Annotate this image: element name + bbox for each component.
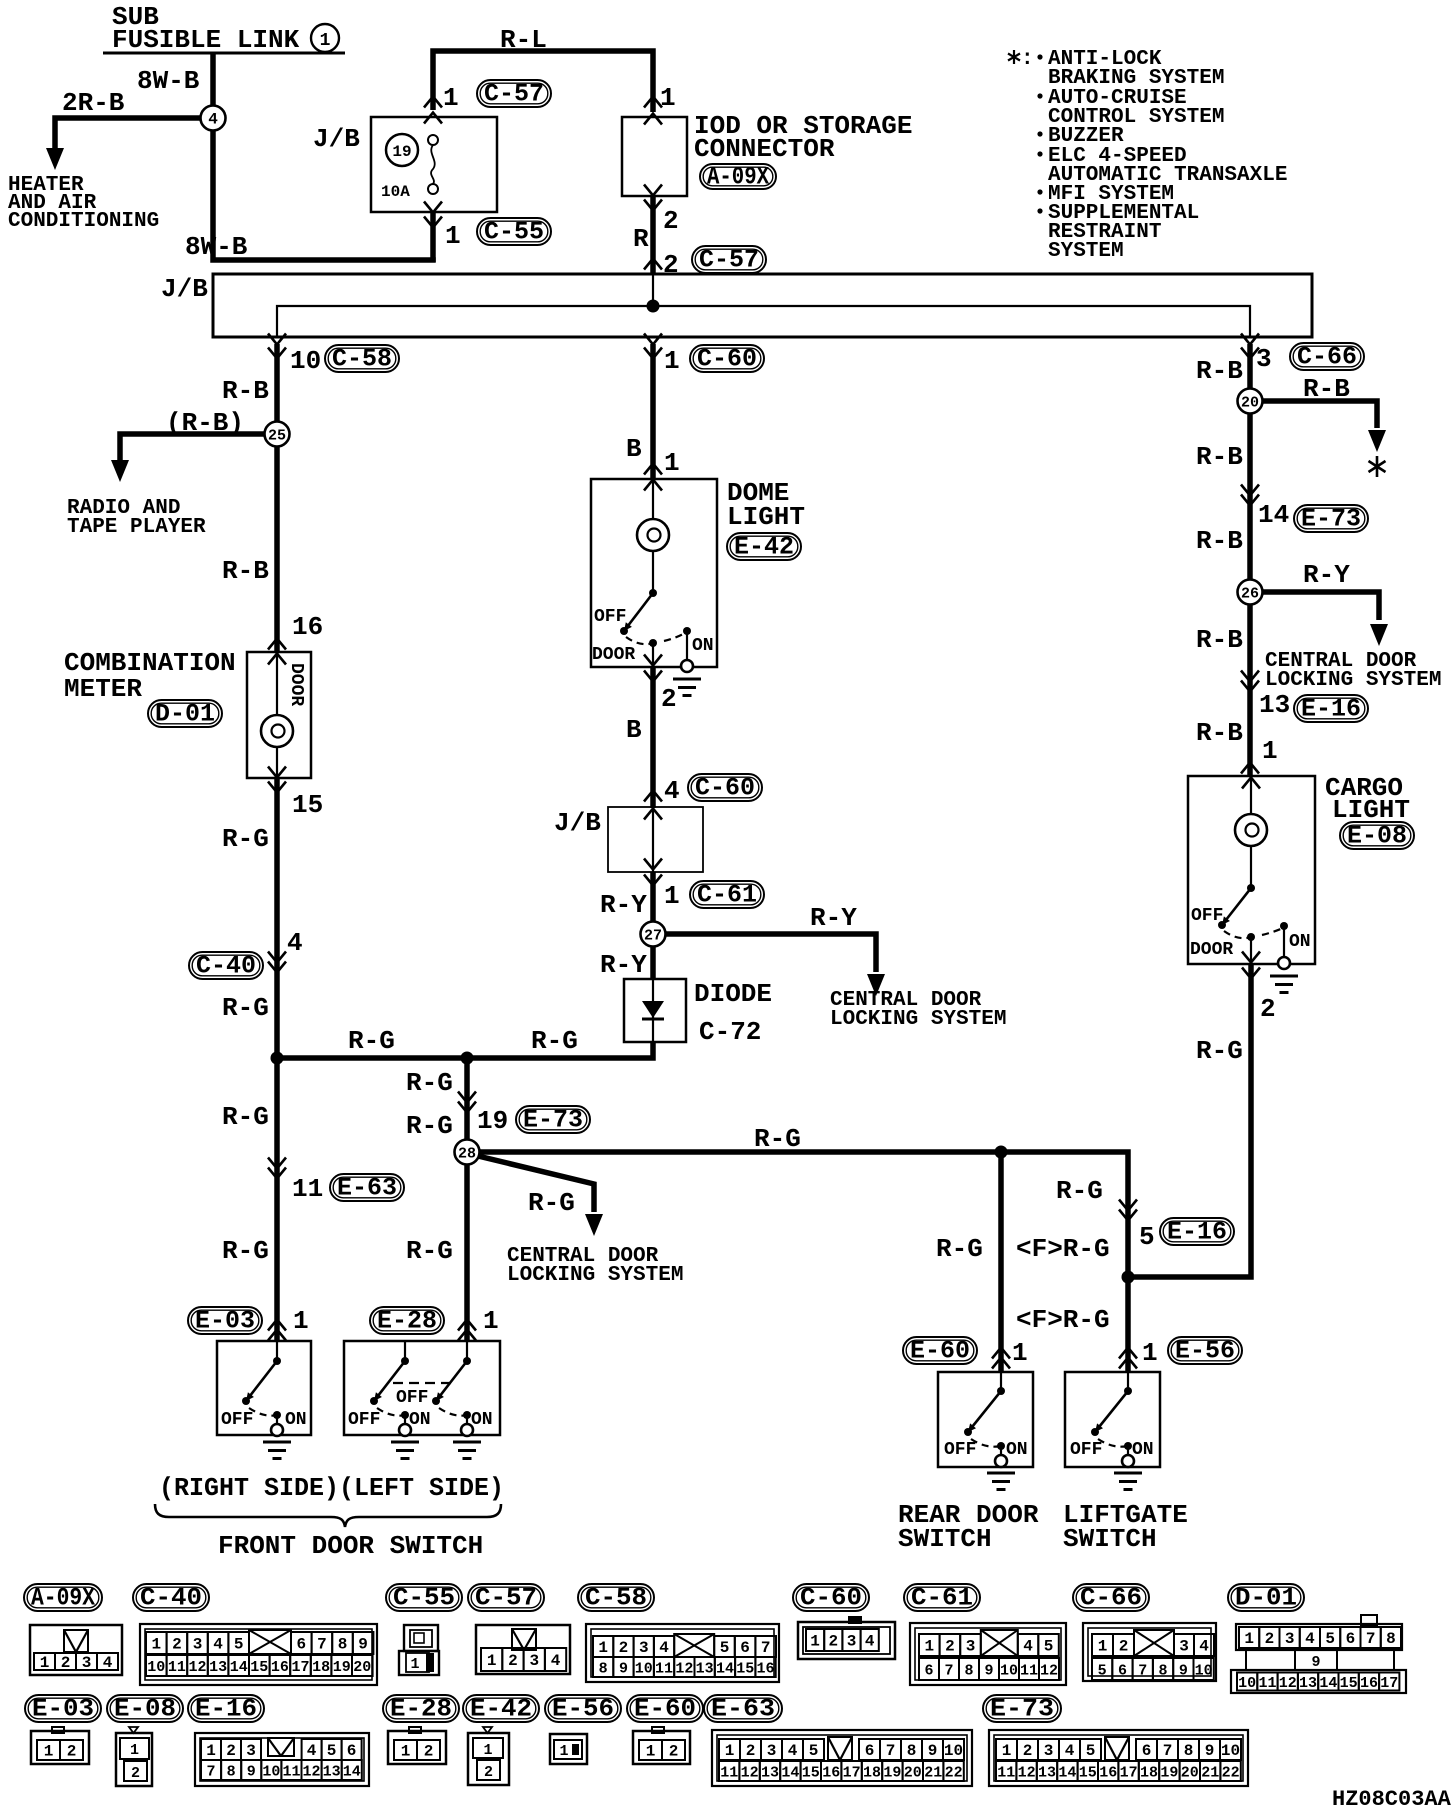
svg-text:LOCKING SYSTEM: LOCKING SYSTEM: [507, 1264, 683, 1287]
wire R-B right column: [1196, 344, 1250, 777]
svg-text:8W-B: 8W-B: [185, 232, 248, 262]
wire label R-B: [222, 376, 269, 406]
svg-text:18: 18: [1140, 1765, 1158, 1782]
svg-text:27: 27: [644, 928, 662, 945]
connector label E-08 (chart): [107, 1695, 183, 1724]
svg-text:19: 19: [392, 143, 411, 161]
connector C-40 pin 4: [268, 928, 303, 973]
svg-text:METER: METER: [64, 674, 142, 704]
svg-text:3: 3: [639, 1639, 649, 1657]
cargo light switch dashed arc and DOOR/ON contacts: [1190, 922, 1311, 960]
destination: central door locking system (center): [830, 989, 1006, 1031]
connector label C-66 (chart): [1073, 1584, 1149, 1613]
front door switch LH box E-28: [344, 1341, 500, 1435]
connector label E-63: [330, 1174, 404, 1203]
wire R-Y branch to central door locking (right): [1250, 592, 1388, 646]
svg-text:14: 14: [1319, 1675, 1337, 1692]
svg-text:OFF: OFF: [1070, 1440, 1102, 1460]
svg-text:C-60: C-60: [800, 1584, 862, 1613]
svg-text:14: 14: [1258, 500, 1289, 530]
svg-text:20: 20: [353, 1659, 371, 1676]
connector label A-09X: [700, 163, 776, 192]
svg-text:2R-B: 2R-B: [62, 88, 125, 118]
connector label E-73 (right): [1294, 505, 1368, 534]
svg-text:B: B: [626, 715, 642, 745]
destination: central door locking system (lower): [507, 1245, 683, 1287]
svg-text:12: 12: [188, 1659, 206, 1676]
svg-text:1: 1: [598, 1639, 608, 1657]
connector C-61 pin 1: [644, 872, 680, 934]
svg-text:13: 13: [696, 1661, 714, 1678]
wire label R-B above combination meter: [222, 556, 269, 586]
IOD or storage connector box: [622, 117, 687, 196]
svg-text:5: 5: [1086, 1742, 1096, 1760]
connector label E-56: [1168, 1337, 1242, 1366]
svg-text:6: 6: [1346, 1630, 1356, 1648]
svg-text:12: 12: [1018, 1765, 1036, 1782]
svg-text:10: 10: [944, 1742, 963, 1760]
svg-text:3: 3: [193, 1636, 203, 1654]
svg-text:19: 19: [477, 1106, 508, 1136]
svg-text:3: 3: [529, 1652, 539, 1670]
svg-text:E-08: E-08: [114, 1695, 176, 1724]
svg-text:C-60: C-60: [697, 345, 757, 374]
svg-text:25: 25: [268, 428, 286, 445]
node 27: [641, 922, 666, 947]
wire label R-G (branch): [528, 1188, 575, 1218]
svg-text:HZ08C03AA: HZ08C03AA: [1332, 1787, 1452, 1812]
dome light bulb: [637, 479, 669, 593]
wire R-B branch to asterisk systems: [1250, 401, 1386, 452]
connector label C-61: [690, 881, 764, 910]
svg-text:21: 21: [924, 1765, 942, 1782]
svg-text:C-58: C-58: [332, 345, 392, 374]
front door switch LH switch A ground: [391, 1415, 419, 1459]
svg-text:DIODE: DIODE: [694, 979, 772, 1009]
front door switch LH pin 1: [458, 1306, 499, 1341]
svg-text:9: 9: [928, 1742, 938, 1760]
wire label 8W-B: [137, 66, 200, 96]
wire R-G main horizontal: [277, 1042, 653, 1058]
connector pinout E-42: [468, 1727, 509, 1785]
connector pinout E-08: [116, 1727, 152, 1786]
connector pinout E-16: [195, 1733, 369, 1786]
junction dot node28 column: [461, 1052, 474, 1065]
svg-text:12: 12: [303, 1764, 321, 1781]
svg-text:4: 4: [287, 928, 303, 958]
svg-text:10: 10: [290, 346, 321, 376]
diode label C-72: [694, 979, 772, 1047]
svg-text:1: 1: [1098, 1638, 1108, 1656]
junction block J/B (small): [554, 807, 703, 872]
svg-text:1: 1: [1142, 1338, 1158, 1368]
connector pinout E-73: [989, 1730, 1248, 1786]
cargo light pin 2 exit: [1242, 937, 1276, 1024]
svg-text:18: 18: [312, 1659, 330, 1676]
svg-text:E-56: E-56: [552, 1695, 614, 1724]
svg-text:OFF: OFF: [594, 607, 626, 627]
connector pinout E-03: [31, 1727, 89, 1764]
svg-text:6: 6: [924, 1663, 933, 1680]
svg-text:8: 8: [338, 1636, 348, 1654]
svg-text:C-72: C-72: [699, 1017, 761, 1047]
rear door switch box E-60: [938, 1372, 1033, 1467]
svg-text:8: 8: [964, 1663, 973, 1680]
svg-text:J/B: J/B: [313, 124, 360, 154]
svg-text:8W-B: 8W-B: [137, 66, 200, 96]
svg-text:E-60: E-60: [634, 1695, 696, 1724]
svg-text:R-B: R-B: [1196, 442, 1243, 472]
wire label R-Y above node 27: [600, 890, 647, 920]
wire from cargo light to liftgate junction: [1128, 964, 1251, 1277]
combination meter label: [64, 648, 236, 704]
connector pinout C-60: [798, 1616, 895, 1659]
connector E-16 pin 13: [1241, 671, 1290, 721]
svg-text:C-61: C-61: [697, 881, 757, 910]
svg-text:2: 2: [1119, 1638, 1129, 1656]
svg-text:R-G: R-G: [754, 1124, 801, 1154]
svg-text:2: 2: [226, 1742, 236, 1760]
svg-text:ON: ON: [471, 1410, 493, 1430]
svg-text:1: 1: [810, 1633, 820, 1651]
svg-text:9: 9: [358, 1636, 368, 1654]
svg-text:E-63: E-63: [337, 1174, 397, 1203]
svg-text:3: 3: [1179, 1638, 1189, 1656]
svg-text:9: 9: [619, 1661, 628, 1678]
svg-text:8: 8: [907, 1742, 917, 1760]
svg-text:15: 15: [802, 1765, 820, 1782]
svg-text:E-28: E-28: [390, 1695, 452, 1724]
svg-text:10: 10: [1221, 1742, 1240, 1760]
svg-text:E-73: E-73: [990, 1695, 1054, 1724]
connector E-73 pin 19: [406, 1092, 508, 1142]
liftgate switch ground: [1114, 1446, 1142, 1490]
svg-text:R: R: [633, 224, 649, 254]
svg-text:1: 1: [151, 1636, 161, 1654]
connector label E-03: [188, 1307, 262, 1336]
liftgate switch contacts: [1070, 1372, 1154, 1460]
svg-text:6: 6: [1142, 1742, 1152, 1760]
svg-text:ON: ON: [1289, 932, 1311, 952]
connector label C-57: [477, 80, 551, 109]
svg-text:C-40: C-40: [140, 1584, 202, 1613]
svg-text:E-16: E-16: [195, 1695, 257, 1724]
connector label E-03 (chart): [25, 1695, 101, 1724]
front door switch RH pin 1: [268, 1306, 309, 1341]
cargo light ON contact ground: [1270, 926, 1298, 993]
dome light switch: [620, 589, 657, 635]
svg-text:R-G: R-G: [406, 1068, 453, 1098]
svg-text:DOOR: DOOR: [592, 645, 635, 665]
connector label C-57 (pin 2): [692, 246, 766, 275]
svg-text:E-08: E-08: [1347, 822, 1407, 851]
wire label <F>R-G upper: [1016, 1234, 1110, 1264]
svg-text:SYSTEM: SYSTEM: [1048, 240, 1124, 263]
connector label E-16 (right): [1294, 695, 1368, 724]
dome light ON contact ground: [673, 631, 701, 696]
connector label E-56 (chart): [545, 1695, 621, 1724]
svg-text:18: 18: [863, 1765, 881, 1782]
svg-text:11: 11: [1020, 1663, 1038, 1680]
liftgate switch title: [1063, 1500, 1188, 1554]
connector pinout E-28: [388, 1727, 446, 1764]
connector label C-60 (chart): [793, 1584, 869, 1613]
svg-text:2: 2: [1023, 1742, 1033, 1760]
connector pinout D-01: [1231, 1615, 1406, 1693]
wire B below dome light: [626, 667, 653, 808]
svg-text:20: 20: [1241, 395, 1259, 412]
svg-text:4: 4: [1065, 1742, 1075, 1760]
svg-text:R-G: R-G: [936, 1234, 983, 1264]
connector label E-28: [370, 1307, 444, 1336]
dome light pin 2 exit: [644, 643, 677, 714]
front door switch LH switch A: [348, 1341, 431, 1430]
wire label R-G below cargo light: [1196, 1036, 1243, 1066]
connector label E-16: [1160, 1218, 1234, 1247]
svg-text:SWITCH: SWITCH: [1063, 1524, 1157, 1554]
svg-text:C-57: C-57: [699, 246, 759, 275]
wire label R-Y (branch): [810, 903, 857, 933]
svg-text:2: 2: [746, 1742, 756, 1760]
connector C-60 pin 1: [644, 334, 680, 377]
svg-text:19: 19: [1160, 1765, 1178, 1782]
svg-text:16: 16: [271, 1659, 289, 1676]
connector pinout A-09X: [30, 1625, 122, 1675]
svg-text:2: 2: [1260, 994, 1276, 1024]
svg-text:TAPE PLAYER: TAPE PLAYER: [67, 516, 206, 539]
connector label E-63 (chart): [704, 1695, 782, 1724]
svg-text:1: 1: [559, 1743, 568, 1760]
connector label E-73 (chart): [983, 1695, 1061, 1724]
connector label C-40: [189, 952, 263, 981]
svg-text:2: 2: [945, 1638, 955, 1656]
svg-text:1: 1: [483, 1742, 492, 1759]
svg-text:6: 6: [865, 1742, 875, 1760]
connector label E-42: [727, 533, 801, 562]
svg-text:4: 4: [664, 776, 680, 806]
svg-text:<F>R-G: <F>R-G: [1016, 1234, 1110, 1264]
svg-text:1: 1: [1012, 1338, 1028, 1368]
svg-text:9: 9: [1179, 1663, 1188, 1680]
svg-text:11: 11: [720, 1765, 738, 1782]
svg-text:CONNECTOR: CONNECTOR: [694, 134, 835, 164]
combination meter box D-01: [247, 652, 311, 778]
svg-text:17: 17: [291, 1659, 309, 1676]
svg-text:CONDITIONING: CONDITIONING: [8, 210, 159, 233]
svg-text:15: 15: [1340, 1675, 1358, 1692]
svg-text:LIGHT: LIGHT: [727, 502, 805, 532]
wire label R-B above cargo light: [1196, 718, 1243, 748]
svg-text:R-B: R-B: [1196, 526, 1243, 556]
svg-text:OFF: OFF: [944, 1440, 976, 1460]
wire R-Y branch to central door locking: [655, 934, 885, 996]
wire from C-55 down to 8W-B: [430, 212, 436, 262]
connector C-58 pin 10: [268, 334, 321, 377]
wire label R-B below node 20: [1196, 442, 1243, 472]
svg-text:8: 8: [599, 1661, 608, 1678]
svg-text:ON: ON: [1006, 1440, 1028, 1460]
svg-text:7: 7: [1163, 1742, 1173, 1760]
connector pinout C-61: [910, 1623, 1066, 1685]
junction dot rear door column: [995, 1146, 1008, 1159]
wire (R-B) branch to radio: [111, 434, 277, 482]
connector label C-40 (chart): [133, 1584, 209, 1613]
svg-text:FRONT DOOR SWITCH: FRONT DOOR SWITCH: [218, 1531, 483, 1561]
svg-text:3: 3: [847, 1633, 857, 1651]
svg-text:9: 9: [247, 1764, 256, 1781]
svg-text:4: 4: [307, 1742, 317, 1760]
connector label A-09X (chart): [24, 1584, 102, 1613]
svg-text:13: 13: [761, 1765, 779, 1782]
svg-text:C-60: C-60: [695, 774, 755, 803]
svg-text:R-Y: R-Y: [600, 890, 647, 920]
combination meter internal wire and DOOR label: [277, 652, 306, 778]
connector C-55 pin 1 (bottom of J/B): [424, 202, 461, 252]
svg-text:A-09X: A-09X: [707, 163, 769, 192]
svg-text:15: 15: [736, 1661, 754, 1678]
connector C-60 pin 4: [644, 776, 680, 806]
svg-text:14: 14: [781, 1765, 799, 1782]
destination: heater and air conditioning: [8, 174, 159, 233]
svg-text:5: 5: [1325, 1630, 1335, 1648]
svg-text:2: 2: [661, 684, 677, 714]
svg-text:2: 2: [669, 1743, 679, 1761]
IOD pin 2 exit, wire R: [633, 185, 679, 281]
wire label R-G liftgate column: [1056, 1176, 1103, 1206]
svg-text:2: 2: [172, 1636, 182, 1654]
svg-text:E-42: E-42: [734, 533, 794, 562]
svg-text:20: 20: [904, 1765, 922, 1782]
wire label <F>R-G lower: [1016, 1305, 1110, 1335]
svg-text:11: 11: [282, 1764, 300, 1781]
wire R-G left column lower: [222, 1058, 277, 1342]
wire R-L from J/B pin1 to IOD connector: [433, 51, 653, 112]
svg-text:E-16: E-16: [1301, 695, 1361, 724]
front door switch LH switch B ground: [453, 1415, 481, 1459]
svg-text:3: 3: [1285, 1630, 1295, 1648]
svg-text:ON: ON: [409, 1410, 431, 1430]
svg-text:1: 1: [725, 1742, 735, 1760]
svg-text:7: 7: [1138, 1663, 1147, 1680]
wire label R-G above E-03: [222, 1236, 269, 1266]
svg-text:19: 19: [883, 1765, 901, 1782]
svg-text:3: 3: [767, 1742, 777, 1760]
rear door switch title: [898, 1500, 1039, 1554]
svg-text:R-B: R-B: [1196, 356, 1243, 386]
svg-text:3: 3: [246, 1742, 256, 1760]
junction dot liftgate/cargo: [1122, 1271, 1135, 1284]
connector C-57 pin 1 (top of J/B): [424, 83, 459, 124]
front door switch RH ground: [263, 1415, 291, 1459]
asterisk note: systems list: [1008, 48, 1287, 263]
front door switch LH mechanical link and OFF label: [393, 1383, 452, 1408]
svg-text:R-G: R-G: [222, 1102, 269, 1132]
wire R-B left column upper: [274, 344, 280, 652]
small J/B internal wire: [644, 807, 662, 872]
svg-text:10: 10: [262, 1764, 280, 1781]
svg-text:13: 13: [1259, 690, 1290, 720]
svg-text:C-57: C-57: [484, 80, 544, 109]
wire label R-L: [500, 25, 547, 55]
wire label R-G above E-28: [406, 1236, 453, 1266]
wire 2R-B branch to heater: [46, 118, 213, 170]
connector label C-60: [690, 345, 764, 374]
connector pinout C-66: [1083, 1623, 1216, 1681]
svg-text:OFF: OFF: [221, 1410, 253, 1430]
front door switch brace: [155, 1504, 501, 1527]
connector pinout E-60: [633, 1727, 690, 1764]
svg-text:2: 2: [61, 1654, 71, 1672]
connector label E-42 (chart): [463, 1695, 539, 1724]
svg-text:R-B: R-B: [222, 556, 269, 586]
svg-text:9: 9: [1205, 1742, 1215, 1760]
wire 8W-B from fusible link down to node 4 and to C-55: [213, 53, 436, 260]
svg-text:9: 9: [1311, 1654, 1320, 1671]
svg-text:3: 3: [82, 1654, 92, 1672]
connector label E-16 (chart): [188, 1695, 264, 1724]
cargo light bulb: [1235, 776, 1267, 888]
svg-text:16: 16: [1360, 1675, 1378, 1692]
svg-text:E-03: E-03: [195, 1307, 255, 1336]
svg-text:4: 4: [208, 111, 218, 129]
svg-text:R-B: R-B: [1196, 625, 1243, 655]
svg-text:5: 5: [1044, 1638, 1054, 1656]
svg-text:11: 11: [655, 1661, 673, 1678]
wire R-G rear door column: [936, 1152, 1001, 1372]
svg-text:4: 4: [659, 1639, 669, 1657]
svg-text:11: 11: [292, 1174, 323, 1204]
svg-text:11: 11: [997, 1765, 1015, 1782]
svg-text:1: 1: [664, 448, 680, 478]
svg-text:4: 4: [1199, 1638, 1209, 1656]
svg-text:8: 8: [227, 1764, 236, 1781]
svg-text:2: 2: [131, 1765, 140, 1782]
svg-text:17: 17: [1380, 1675, 1398, 1692]
svg-text:DOOR: DOOR: [1190, 940, 1233, 960]
connector label E-73: [516, 1106, 590, 1135]
svg-text:9: 9: [984, 1663, 993, 1680]
wire R-Y to diode: [600, 934, 653, 980]
svg-text:11: 11: [1258, 1675, 1276, 1692]
rear door switch contacts: [944, 1372, 1028, 1460]
svg-text:ON: ON: [692, 636, 714, 656]
svg-text:R-Y: R-Y: [810, 903, 857, 933]
junction dot left: [271, 1052, 284, 1065]
svg-text:7: 7: [761, 1639, 771, 1657]
svg-text:2: 2: [828, 1633, 838, 1651]
svg-text:1: 1: [130, 1742, 139, 1759]
J/B internal bus wire: [277, 274, 1250, 337]
svg-text:20: 20: [1181, 1765, 1199, 1782]
connector label E-60: [903, 1337, 977, 1366]
svg-text:ON: ON: [1132, 1440, 1154, 1460]
svg-text:R-Y: R-Y: [1303, 560, 1350, 590]
svg-text:R-G: R-G: [528, 1188, 575, 1218]
front door switch RH box E-03: [217, 1341, 311, 1435]
svg-text:LOCKING SYSTEM: LOCKING SYSTEM: [1265, 669, 1441, 692]
connector pinout C-57: [476, 1625, 570, 1674]
svg-text:2: 2: [508, 1652, 518, 1670]
connector label C-58: [325, 345, 399, 374]
svg-text:7: 7: [1366, 1630, 1376, 1648]
svg-text:6: 6: [296, 1636, 306, 1654]
svg-text:E-42: E-42: [470, 1695, 532, 1724]
svg-text:1: 1: [1002, 1742, 1012, 1760]
svg-text:8: 8: [1159, 1663, 1168, 1680]
connector label C-66: [1290, 343, 1364, 372]
svg-text:R-B: R-B: [1303, 374, 1350, 404]
svg-text:4: 4: [1305, 1630, 1315, 1648]
